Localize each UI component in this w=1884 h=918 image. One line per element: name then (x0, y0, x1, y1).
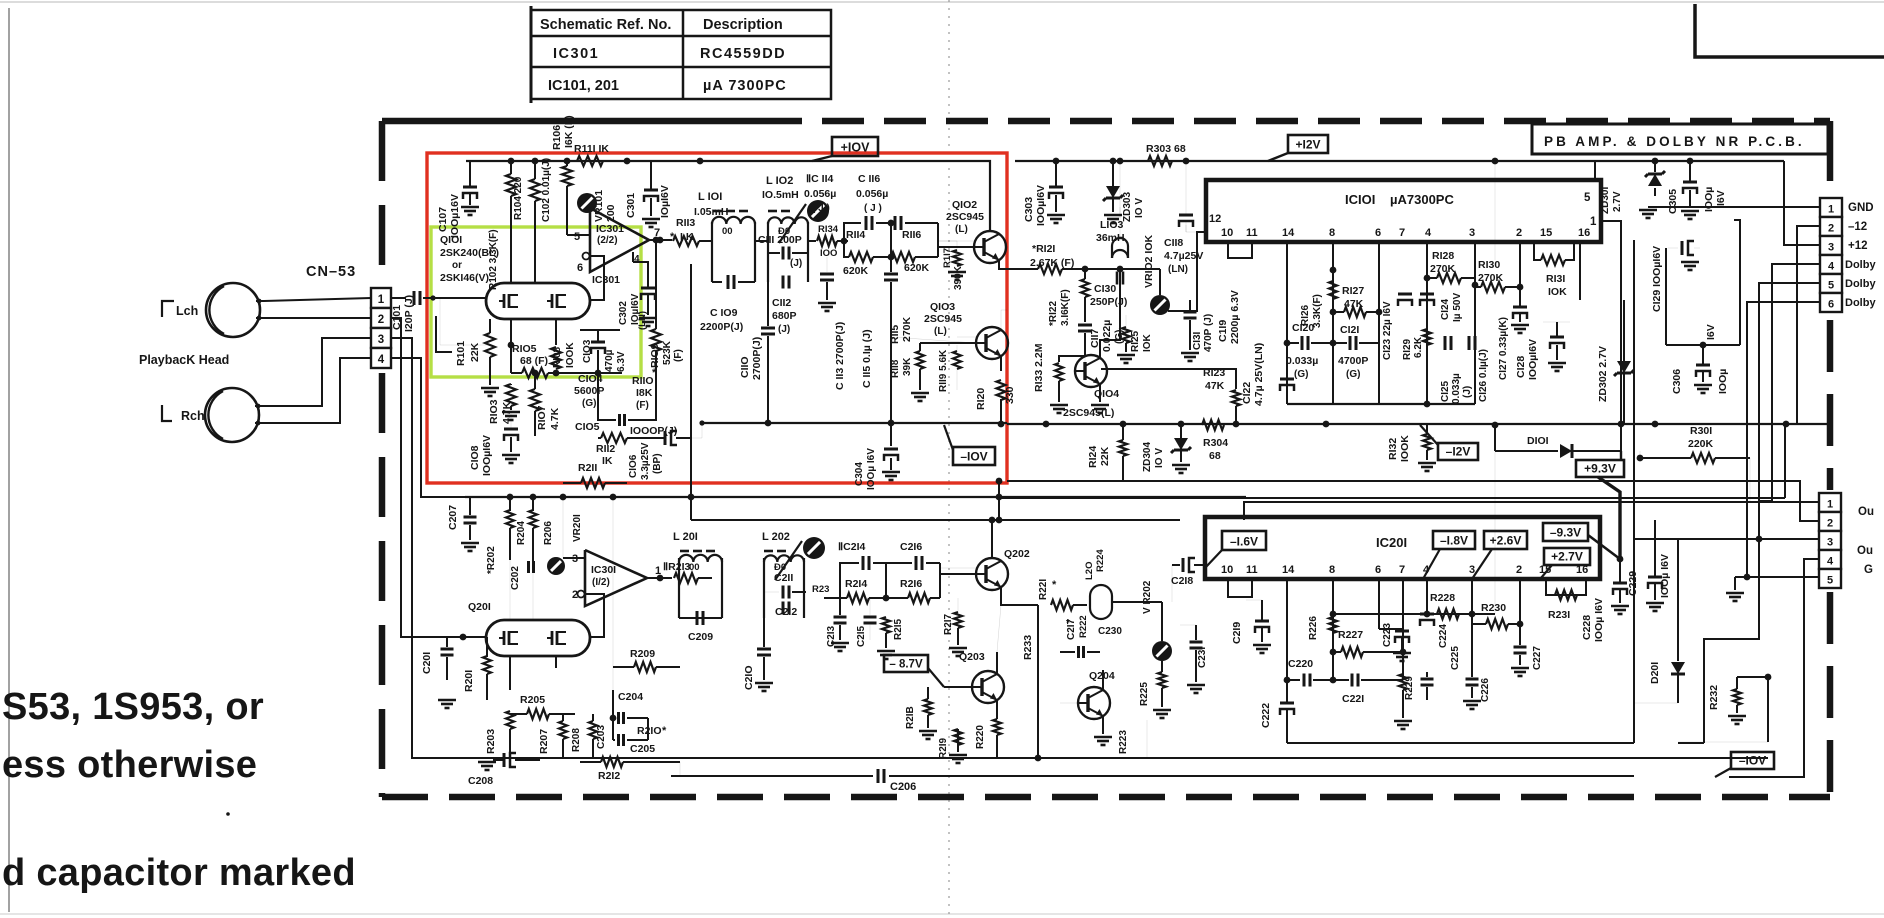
svg-text:Rch: Rch (181, 409, 205, 423)
svg-text:R106: R106 (551, 125, 563, 150)
svg-text:6.2K: 6.2K (1413, 336, 1424, 358)
svg-text:IOOµ I6V: IOOµ I6V (1659, 554, 1671, 598)
svg-text:IOO: IOO (820, 248, 837, 259)
svg-text:C204: C204 (618, 691, 643, 703)
svg-text:R2I5: R2I5 (893, 618, 904, 640)
svg-text:R205: R205 (520, 694, 545, 706)
wire pin8 bus (1333, 613, 1495, 615)
capacitor C125 0.033 (1444, 336, 1447, 350)
svg-text:2700P(J): 2700P(J) (751, 337, 763, 380)
Lch label bracket (162, 301, 174, 317)
svg-text:C228: C228 (1581, 615, 1593, 640)
svg-text:IOOµ I6V: IOOµ I6V (866, 448, 877, 490)
+12V rail (1015, 160, 1784, 162)
svg-text:(I/2): (I/2) (592, 577, 610, 588)
page left edge line (8, 8, 10, 912)
-12V label box (1438, 443, 1478, 460)
svg-text:RI33 2.2M: RI33 2.2M (1033, 343, 1045, 392)
center fold dotted line (948, 0, 950, 918)
capacitor C304 (890, 423, 892, 446)
svg-text:CI2I: CI2I (1340, 324, 1359, 336)
svg-text:IC301: IC301 (592, 274, 620, 286)
svg-text:Q203: Q203 (959, 651, 985, 663)
svg-text:2SC945(L): 2SC945(L) (1063, 407, 1114, 419)
svg-text:4.7K: 4.7K (549, 407, 561, 430)
svg-text:ICIOI: ICIOI (1345, 192, 1375, 207)
svg-text:R207: R207 (538, 729, 550, 754)
svg-text:Dolby: Dolby (1845, 297, 1876, 309)
svg-text:IOOµ: IOOµ (1703, 187, 1715, 212)
capacitor C101 (413, 291, 416, 305)
+2.6V label box (1484, 531, 1527, 549)
svg-text:00: 00 (722, 226, 733, 237)
svg-text:C227: C227 (1532, 646, 1543, 670)
svg-text:(J): (J) (1462, 386, 1473, 398)
resistor R134 100 (808, 240, 816, 242)
svg-text:R2I2: R2I2 (598, 770, 620, 782)
svg-text:S53, 1S953, or: S53, 1S953, or (2, 686, 264, 728)
svg-text:470µ: 470µ (604, 349, 615, 372)
svg-text:C223: C223 (1382, 623, 1393, 647)
misc right vertical buses (1633, 240, 1635, 743)
svg-text:–I2V: –I2V (1446, 445, 1471, 459)
svg-text:R2IB: R2IB (905, 706, 916, 729)
svg-text:RII2: RII2 (596, 443, 615, 455)
svg-text:IC101, 201: IC101, 201 (548, 78, 619, 94)
svg-text:Lch: Lch (176, 304, 198, 318)
svg-text:4: 4 (1423, 564, 1430, 576)
svg-text:+2.6V: +2.6V (1490, 534, 1522, 548)
svg-text:CI3I: CI3I (1192, 331, 1203, 350)
svg-text:C II6: C II6 (858, 173, 880, 185)
svg-text:R232: R232 (1708, 685, 1720, 710)
svg-text:C2I2: C2I2 (775, 606, 797, 618)
svg-text:Ou: Ou (1857, 545, 1873, 557)
svg-text:IC301: IC301 (596, 223, 624, 235)
Q102 collector to +10V rail (805, 161, 990, 231)
svg-text:( J ): ( J ) (864, 203, 882, 214)
svg-text:or: or (452, 260, 462, 271)
svg-text:I20P (J): I20P (J) (403, 295, 415, 332)
svg-text:523K: 523K (662, 340, 673, 365)
capacitor C117 0.022u (1078, 324, 1092, 327)
svg-text:IOOµI6V: IOOµI6V (1035, 185, 1047, 226)
transistor Q104 (1075, 355, 1107, 387)
svg-text:7: 7 (1399, 564, 1405, 576)
svg-text:620K: 620K (843, 265, 869, 277)
wire R233 bottom (996, 757, 998, 759)
C303 cap (1049, 186, 1063, 189)
svg-text:C2I6: C2I6 (900, 541, 922, 553)
opamp out wire (647, 577, 672, 579)
trimmer slug (807, 200, 829, 222)
svg-text:CI28: CI28 (1515, 356, 1527, 378)
svg-text:6: 6 (577, 262, 583, 274)
svg-text:RII5: RII5 (889, 325, 901, 344)
capacitor C126 0.1u (1468, 336, 1471, 350)
svg-text:CI29 IOOµI6V: CI29 IOOµI6V (1651, 246, 1663, 312)
svg-text:R222: R222 (1078, 615, 1089, 638)
svg-text:2: 2 (1516, 227, 1522, 239)
svg-text:(F): (F) (673, 349, 684, 362)
capacitor C209 (679, 617, 722, 619)
svg-text:C2I5: C2I5 (856, 625, 867, 647)
svg-text:GND: GND (1848, 202, 1874, 214)
svg-text:R206: R206 (543, 521, 554, 545)
-10V label box lower (1731, 752, 1774, 769)
svg-text:R204: R204 (516, 521, 527, 545)
svg-text:(L): (L) (955, 224, 968, 235)
bottom rail of filter (702, 422, 1007, 424)
svg-text:IOOµI6V: IOOµI6V (1527, 339, 1539, 380)
svg-text:R2II: R2II (578, 462, 597, 474)
page bottom scan line (0, 913, 1884, 915)
svg-text:220K: 220K (1688, 438, 1714, 450)
wire op-amp out to R113 (649, 239, 672, 241)
capacitor C206 (877, 769, 880, 783)
svg-text:C206: C206 (890, 781, 916, 793)
svg-text:C IO9: C IO9 (710, 307, 738, 319)
svg-text:4: 4 (378, 354, 385, 366)
svg-text:RII3: RII3 (676, 217, 695, 229)
svg-text:(G): (G) (1346, 369, 1360, 380)
svg-text:Dolby: Dolby (1845, 278, 1876, 290)
red highlight box (427, 153, 1007, 483)
svg-text:C305: C305 (1667, 189, 1679, 214)
lower rail wire (465, 496, 1246, 498)
svg-text:R224: R224 (1095, 549, 1106, 572)
-1.6V label box (1222, 531, 1266, 550)
svg-text:µA 7300PC: µA 7300PC (703, 78, 787, 94)
svg-text:0.056µ: 0.056µ (804, 188, 836, 200)
svg-text:IOK: IOK (1142, 333, 1153, 352)
+12V label box (1288, 135, 1328, 153)
svg-text:C224: C224 (1438, 624, 1449, 648)
svg-text:Description: Description (703, 17, 783, 33)
+10V label box (832, 137, 878, 156)
svg-text:(G): (G) (582, 398, 596, 409)
svg-text:2: 2 (378, 314, 384, 326)
mid right long wire (999, 497, 1785, 499)
svg-text:CI24: CI24 (1440, 298, 1451, 320)
svg-text:R230: R230 (1481, 602, 1506, 614)
svg-text:*: * (1066, 618, 1070, 629)
svg-text:(BP): (BP) (652, 453, 663, 474)
svg-text:IC20I: IC20I (1376, 535, 1407, 550)
svg-text:IOOµI6V: IOOµI6V (481, 435, 493, 476)
connector wires (1648, 206, 1820, 208)
svg-text:IOOK: IOOK (565, 342, 576, 368)
IC201 pin drops (1286, 579, 1288, 680)
svg-text:11: 11 (1246, 564, 1258, 576)
wires around Q101 (440, 297, 486, 299)
svg-text:CI20: CI20 (1292, 322, 1314, 334)
svg-text:IO V: IO V (1134, 198, 1145, 218)
signal wire Q102 to R121 (1007, 268, 1038, 270)
svg-text:ZD304: ZD304 (1142, 442, 1153, 472)
capacitor C131 470P (1184, 311, 1197, 314)
caps C114 C116 top path (844, 223, 861, 241)
svg-text:RI34: RI34 (818, 224, 839, 235)
svg-text:0.056µ: 0.056µ (856, 188, 888, 200)
svg-text:C202: C202 (510, 566, 521, 590)
svg-text:C107: C107 (437, 207, 449, 232)
svg-text:RII6: RII6 (902, 229, 921, 241)
svg-text:R223: R223 (1118, 730, 1129, 754)
svg-text:IOOµ: IOOµ (1717, 369, 1729, 394)
svg-text:C207: C207 (447, 505, 459, 530)
svg-text:QIO2: QIO2 (952, 199, 977, 211)
svg-text:RII9 5.6K: RII9 5.6K (938, 349, 949, 392)
svg-text:C205: C205 (630, 743, 655, 755)
bottom net wire (1287, 742, 1634, 744)
svg-text:680P: 680P (772, 310, 797, 322)
svg-text:+9.3V: +9.3V (1584, 462, 1616, 476)
bus verticals right (1734, 220, 1740, 345)
Q202 collector rail (992, 519, 1180, 521)
svg-text:CI27 0.33µ(K): CI27 0.33µ(K) (1498, 317, 1509, 380)
svg-text:D20I: D20I (1649, 662, 1661, 684)
svg-text:Q204: Q204 (1089, 670, 1115, 682)
svg-text:3: 3 (1827, 537, 1833, 549)
svg-text:ZD303: ZD303 (1122, 192, 1133, 222)
svg-text:4: 4 (634, 254, 640, 265)
svg-text:(F): (F) (636, 400, 649, 411)
svg-text:R2I9: R2I9 (938, 737, 949, 759)
svg-text:C20I: C20I (421, 652, 433, 674)
svg-text:3.3µ25V: 3.3µ25V (640, 442, 651, 480)
svg-text:I.05mH: I.05mH (694, 206, 728, 218)
svg-text:C208: C208 (468, 775, 493, 787)
svg-text:22K: 22K (1099, 446, 1111, 466)
svg-text:+I2V: +I2V (1295, 138, 1320, 152)
svg-text:(LN): (LN) (1168, 264, 1188, 275)
svg-text:5: 5 (574, 231, 580, 243)
svg-text:L2O: L2O (1084, 562, 1095, 580)
svg-text:C II5 0.Iµ (J): C II5 0.Iµ (J) (861, 329, 873, 388)
svg-text:IC30I: IC30I (591, 564, 616, 576)
svg-text:ⅡR2I3: ⅡR2I3 (663, 561, 691, 573)
cap at pin15 (1550, 336, 1564, 339)
svg-text:2: 2 (1828, 223, 1834, 235)
svg-text:+12: +12 (1848, 240, 1868, 252)
svg-text:IOOK: IOOK (1399, 435, 1411, 462)
svg-text:–I.8V: –I.8V (1440, 534, 1468, 548)
svg-text:G: G (1864, 564, 1873, 576)
svg-text:47K: 47K (1205, 380, 1225, 392)
svg-text:C225: C225 (1450, 646, 1461, 670)
Q102 emitter (999, 260, 1007, 269)
svg-text:0.022µ: 0.022µ (1101, 320, 1113, 352)
svg-text:C203: C203 (596, 725, 607, 749)
svg-text:3: 3 (378, 334, 384, 346)
bottom rail long (460, 757, 1768, 759)
svg-text:15: 15 (1539, 564, 1551, 576)
svg-text:7: 7 (1399, 227, 1405, 239)
svg-text:R227: R227 (1338, 629, 1363, 641)
svg-text:R23I: R23I (1548, 609, 1570, 621)
R231 stub (1546, 579, 1586, 595)
main dashed border frame (382, 118, 760, 125)
svg-text:I8K: I8K (636, 387, 653, 399)
connector pins 1-6 right (1820, 198, 1842, 217)
svg-text:Dolby: Dolby (1845, 259, 1876, 271)
svg-text:IOOµ16V: IOOµ16V (449, 194, 461, 238)
svg-text:*: * (1052, 579, 1057, 591)
Q103 column to rail (998, 481, 1000, 520)
svg-text:C II3 2700P(J): C II3 2700P(J) (834, 322, 846, 390)
svg-text:C301: C301 (625, 193, 637, 218)
svg-text:R101: R101 (455, 341, 467, 366)
resistor R112 1K (601, 433, 627, 443)
svg-text:8: 8 (1329, 564, 1335, 576)
svg-text:6: 6 (1375, 564, 1381, 576)
svg-text:I6V: I6V (1715, 190, 1727, 206)
svg-text:ⅡC II4: ⅡC II4 (806, 173, 834, 185)
svg-text:R102 3.3K(F): R102 3.3K(F) (488, 229, 499, 290)
svg-text:11: 11 (1246, 227, 1258, 239)
svg-text:– 8.7V: – 8.7V (889, 659, 923, 671)
svg-text:C22I: C22I (1342, 693, 1364, 705)
svg-text:ZD302 2.7V: ZD302 2.7V (1597, 346, 1609, 402)
svg-text:2.67K (F): 2.67K (F) (1030, 257, 1074, 269)
svg-text:Q202: Q202 (1004, 548, 1030, 560)
svg-text:L IOI: L IOI (698, 191, 722, 203)
svg-text:CIIO: CIIO (739, 356, 751, 378)
svg-text:*R202: *R202 (486, 546, 497, 574)
svg-text:QIO4: QIO4 (1094, 388, 1119, 400)
green highlight box (431, 227, 641, 377)
svg-text:RI29: RI29 (1402, 338, 1413, 360)
svg-text:330: 330 (1004, 386, 1016, 404)
svg-text:2SK240(BL): 2SK240(BL) (440, 247, 499, 259)
svg-text:270K: 270K (901, 316, 913, 342)
svg-text:R303 68: R303 68 (1146, 143, 1186, 155)
svg-text:RI30: RI30 (1478, 259, 1500, 271)
svg-text:270K: 270K (1430, 263, 1456, 275)
svg-text:IOOµ I6V: IOOµ I6V (1593, 598, 1605, 642)
svg-text:6: 6 (1375, 227, 1381, 239)
svg-text:IO V: IO V (1154, 448, 1165, 468)
svg-text:16: 16 (1578, 227, 1590, 239)
svg-text:RI28: RI28 (1432, 250, 1454, 262)
svg-text:39K: 39K (902, 357, 913, 376)
svg-text:R208: R208 (571, 728, 582, 752)
svg-text:2: 2 (1827, 518, 1833, 530)
page top edge line (0, 1, 1884, 3)
+2.7V label box (1544, 548, 1590, 565)
svg-text:C230: C230 (1098, 626, 1122, 637)
connector CN-53 pins 1-4 (371, 288, 391, 308)
svg-text:6.3V: 6.3V (616, 351, 627, 372)
IC101 pin drops (1286, 242, 1288, 404)
svg-text:µA7300PC: µA7300PC (1390, 192, 1454, 207)
svg-text:L 20I: L 20I (673, 531, 698, 543)
svg-text:R20I: R20I (463, 670, 475, 692)
op-amp IC301 1/2 (585, 550, 647, 606)
svg-text:(2/2): (2/2) (597, 235, 618, 246)
svg-text:CI22: CI22 (1241, 382, 1253, 404)
svg-text:CI25: CI25 (1440, 380, 1451, 402)
svg-text:5: 5 (1827, 575, 1833, 587)
playback head Rch (205, 388, 259, 442)
svg-text:L IO2: L IO2 (766, 175, 793, 187)
svg-text:R228: R228 (1430, 592, 1455, 604)
svg-text:R23: R23 (812, 584, 829, 595)
svg-text:–IOV: –IOV (960, 450, 987, 464)
svg-text:RI24: RI24 (1087, 446, 1099, 468)
svg-text:390K: 390K (953, 265, 964, 290)
svg-text:VR20I: VR20I (572, 514, 583, 542)
svg-text:VRIO2 IOK: VRIO2 IOK (1143, 234, 1155, 288)
svg-text:IO.5mH: IO.5mH (762, 189, 799, 201)
svg-text:Ou: Ou (1858, 506, 1874, 518)
svg-text:68: 68 (1209, 450, 1221, 462)
svg-text:4: 4 (1827, 556, 1834, 568)
svg-text:R11I IK: R11I IK (574, 143, 609, 155)
svg-text:4700P: 4700P (1338, 355, 1368, 367)
svg-text:2SC945: 2SC945 (946, 211, 984, 223)
svg-text:C2I9: C2I9 (1231, 622, 1243, 644)
svg-text:620K: 620K (904, 262, 930, 274)
-10V label box (953, 447, 995, 465)
capacitor C109 2200P (712, 281, 722, 283)
svg-text:C302: C302 (618, 301, 629, 325)
svg-text:R2I4: R2I4 (845, 578, 867, 590)
svg-text:(J): (J) (790, 258, 802, 269)
svg-text:2200P(J): 2200P(J) (700, 321, 743, 333)
svg-text:10: 10 (1221, 564, 1233, 576)
svg-text:5: 5 (1584, 192, 1591, 204)
svg-text:0.033µ: 0.033µ (1286, 355, 1318, 367)
svg-text:250P(J): 250P(J) (1090, 296, 1127, 308)
svg-text:RC4559DD: RC4559DD (700, 46, 786, 62)
IC201 body (1205, 517, 1600, 579)
svg-text:d capacitor marked: d capacitor marked (2, 852, 356, 894)
svg-text:IOµI6V: IOµI6V (659, 185, 671, 218)
connector pins 1-5 lower right (1819, 493, 1841, 512)
svg-text:RI32: RI32 (1387, 438, 1399, 460)
svg-text:2: 2 (1516, 564, 1522, 576)
svg-text:4.7µ25V: 4.7µ25V (1164, 250, 1203, 262)
svg-text:15: 15 (1540, 227, 1552, 239)
svg-text:CIO6: CIO6 (628, 454, 639, 478)
svg-text:R104 220: R104 220 (513, 176, 524, 220)
svg-text:1: 1 (1827, 499, 1833, 511)
top right corner frame (1695, 4, 1884, 57)
svg-text:4.7µ 25V(LN): 4.7µ 25V(LN) (1253, 343, 1265, 406)
bottom rails (540, 757, 1147, 759)
capacitor C118 (1179, 214, 1193, 217)
svg-text:PB AMP. & DOLBY NR P.C.B.: PB AMP. & DOLBY NR P.C.B. (1544, 134, 1805, 149)
svg-text:DIOI: DIOI (1527, 435, 1549, 447)
IC101 body (1206, 180, 1601, 242)
svg-text:R22I: R22I (1038, 579, 1049, 600)
svg-text:VR101: VR101 (593, 190, 605, 222)
svg-text:–I.6V: –I.6V (1230, 535, 1258, 549)
svg-text:Iµ 50V: Iµ 50V (1452, 293, 1463, 322)
svg-text:C2IO: C2IO (743, 665, 755, 690)
PCB title box (1532, 124, 1828, 154)
svg-text:+IOV: +IOV (841, 141, 870, 155)
svg-text:RIO5: RIO5 (512, 343, 537, 355)
svg-text:–9.3V: –9.3V (1550, 526, 1581, 540)
parts reference table (531, 10, 831, 99)
svg-text:–IOV: –IOV (1739, 754, 1766, 768)
svg-text:(G): (G) (1294, 369, 1308, 380)
-1.8V label box (1433, 531, 1475, 549)
svg-text:CIO8: CIO8 (469, 445, 481, 470)
